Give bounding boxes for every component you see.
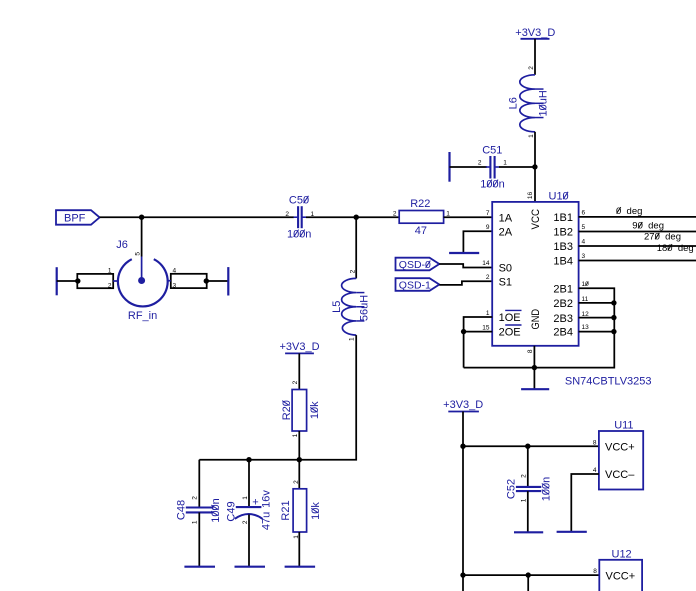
wire C49 bottom lead <box>248 515 250 567</box>
svg-text:15: 15 <box>482 324 490 331</box>
capacitor C48 <box>175 496 222 524</box>
svg-text:10k: 10k <box>310 502 322 520</box>
svg-text:180 deg: 180 deg <box>657 243 694 254</box>
ground (R21) <box>285 566 316 568</box>
svg-text:RF_in: RF_in <box>128 310 157 322</box>
svg-text:56uH: 56uH <box>358 295 370 321</box>
wire junction down to J6 <box>141 217 143 256</box>
ground (J6 left) <box>56 267 58 295</box>
svg-text:1: 1 <box>528 134 535 138</box>
U10 pin 11 2B2 <box>553 296 588 310</box>
svg-text:2B3: 2B3 <box>553 313 573 325</box>
svg-text:7: 7 <box>486 210 490 217</box>
connector J6 <box>116 239 167 322</box>
svg-text:100n: 100n <box>480 178 504 190</box>
svg-text:100n: 100n <box>541 477 553 501</box>
svg-text:1: 1 <box>486 310 490 317</box>
U10 pin 8 GND <box>527 309 542 353</box>
wire 2A to ground <box>463 231 492 253</box>
svg-text:2: 2 <box>478 160 482 167</box>
IC U11 <box>599 420 643 490</box>
wire gnd to J6 pad left <box>57 280 78 282</box>
svg-text:1: 1 <box>108 268 112 275</box>
wire QSD-0 to S0 <box>439 264 492 268</box>
node 2B3 <box>611 315 616 320</box>
svg-text:R22: R22 <box>410 198 430 210</box>
wire C51 to junction <box>499 166 535 168</box>
inductor L6 <box>508 66 550 138</box>
svg-text:2: 2 <box>528 66 535 70</box>
wire to U11 pin 8 <box>463 445 599 447</box>
node J6 pad right <box>204 278 209 283</box>
svg-text:GND: GND <box>530 309 542 330</box>
svg-text:4: 4 <box>593 467 597 474</box>
wire U11 VCC- to gnd <box>571 474 599 532</box>
svg-text:BPF: BPF <box>64 213 86 225</box>
svg-text:14: 14 <box>482 260 490 267</box>
svg-text:2: 2 <box>108 283 112 290</box>
wire U10 GND pin down <box>533 346 535 389</box>
wire L5 down and left <box>199 335 356 460</box>
capacitor C52 <box>505 474 552 502</box>
svg-text:5: 5 <box>582 224 586 231</box>
U10 pin 9 2A <box>486 224 513 238</box>
svg-text:10k: 10k <box>309 401 321 419</box>
svg-text:VCC: VCC <box>530 209 542 230</box>
node U12 row left <box>460 572 465 577</box>
U10 pin 12 2B3 <box>553 311 589 325</box>
wire R22 to U10 1A <box>444 216 493 218</box>
U11 pin 8 VCC+ <box>593 439 635 453</box>
wire 1B1 out 0 deg <box>579 216 696 218</box>
U10 pin 2 S1 <box>486 274 512 288</box>
svg-text:16: 16 <box>527 192 534 200</box>
svg-text:U11: U11 <box>614 420 633 432</box>
svg-text:+3V3_D: +3V3_D <box>279 341 319 353</box>
svg-text:8: 8 <box>593 568 597 575</box>
svg-text:2: 2 <box>520 474 527 478</box>
node U11 row left <box>460 444 465 449</box>
svg-text:1A: 1A <box>499 212 513 224</box>
svg-text:QSD-0: QSD-0 <box>399 259 431 271</box>
svg-text:8: 8 <box>593 439 597 446</box>
ground (C52) <box>514 531 543 533</box>
svg-text:C51: C51 <box>482 145 502 157</box>
svg-text:1: 1 <box>292 433 299 437</box>
resistor R22 <box>393 198 450 237</box>
wire 2B3 <box>579 317 615 319</box>
svg-text:L6: L6 <box>508 97 520 109</box>
svg-text:C48: C48 <box>175 500 187 520</box>
U10 pin 5 1B2 <box>553 224 585 239</box>
ground (U11) <box>557 531 587 533</box>
svg-text:S1: S1 <box>499 277 512 289</box>
wire 1B4 out 180 deg <box>579 260 696 262</box>
node 2B2 <box>611 300 616 305</box>
net flag QSD-1 <box>396 278 440 291</box>
svg-text:13: 13 <box>582 324 590 331</box>
svg-text:1OE: 1OE <box>499 312 521 324</box>
wire C50 to R22 <box>306 216 399 218</box>
U12 pin 8 VCC+ <box>593 568 635 582</box>
resistor R20 <box>281 380 321 437</box>
svg-text:90 deg: 90 deg <box>632 221 664 232</box>
svg-text:10uH: 10uH <box>538 90 550 116</box>
svg-text:100n: 100n <box>287 228 311 240</box>
svg-text:C52: C52 <box>505 479 517 499</box>
svg-text:2: 2 <box>242 520 249 524</box>
capacitor C49 polarized <box>225 490 272 531</box>
node 1OE/2OE junction <box>461 329 466 334</box>
U10 pin 1 1OE <box>486 310 522 324</box>
wire C48 bottom lead <box>198 512 200 566</box>
svg-text:6: 6 <box>582 209 586 216</box>
node BPF/J6 junction <box>139 215 144 220</box>
J6 right pad pins 4,3 <box>167 268 207 290</box>
wire R21 to gnd <box>298 532 300 567</box>
svg-text:2B1: 2B1 <box>553 283 573 295</box>
svg-text:VCC+: VCC+ <box>605 441 635 453</box>
node C52 top <box>525 444 530 449</box>
node R20/R21 junction <box>297 457 302 462</box>
wire GND junction right and up to 2B1 <box>534 288 614 367</box>
U10 pin 16 VCC <box>527 192 542 230</box>
wire 1B3 out 270 deg <box>579 245 696 247</box>
node C49 junction <box>246 457 251 462</box>
node U12 cap junction <box>526 572 531 577</box>
wire C48 top lead <box>198 460 200 508</box>
svg-text:J6: J6 <box>116 239 128 251</box>
svg-text:9: 9 <box>486 224 490 231</box>
wire below U12 junction <box>527 575 529 591</box>
capacitor C51 <box>478 145 507 191</box>
svg-text:47u: 47u <box>260 512 272 530</box>
svg-text:2A: 2A <box>499 226 513 238</box>
net flag QSD-0 <box>396 258 440 271</box>
U10 pin 3 1B4 <box>553 253 585 268</box>
U10 pin 10 2B1 <box>553 281 589 295</box>
svg-text:8: 8 <box>527 349 534 353</box>
svg-text:+3V3_D: +3V3_D <box>515 27 555 39</box>
U10 pin 4 1B3 <box>553 239 585 254</box>
U11 pin 4 VCC- <box>593 467 635 481</box>
svg-text:2: 2 <box>285 211 289 218</box>
svg-text:100n: 100n <box>210 498 222 522</box>
svg-text:1: 1 <box>242 496 249 500</box>
U10 pin 13 2B4 <box>553 324 589 338</box>
svg-text:QSD-1: QSD-1 <box>399 280 431 292</box>
svg-text:1B2: 1B2 <box>553 227 573 239</box>
ground (left of C51) <box>448 152 450 182</box>
svg-text:1B1: 1B1 <box>553 212 573 224</box>
wire C52 top lead <box>527 446 529 487</box>
node 2B4 <box>611 329 616 334</box>
svg-text:SN74CBTLV3253: SN74CBTLV3253 <box>565 375 652 387</box>
svg-text:2: 2 <box>393 210 397 217</box>
ground (U10) <box>521 388 549 390</box>
U10 pin 7 1A <box>486 210 513 225</box>
svg-text:3: 3 <box>173 283 177 290</box>
wire power to R20 <box>298 353 300 389</box>
svg-text:2B2: 2B2 <box>553 298 573 310</box>
node L5 junction <box>354 215 359 220</box>
svg-text:2: 2 <box>292 380 299 384</box>
U10 pin 15 2OE <box>482 324 521 338</box>
svg-text:1B3: 1B3 <box>553 241 573 253</box>
ground (2A) <box>449 252 479 254</box>
wire QSD-1 to S1 <box>439 281 492 285</box>
net flag BPF <box>56 210 100 225</box>
svg-text:4: 4 <box>173 268 177 275</box>
wire gnd to C51 <box>450 166 488 168</box>
svg-text:2: 2 <box>349 269 356 273</box>
wire BPF to C50 <box>100 216 294 218</box>
svg-text:1: 1 <box>348 337 355 341</box>
node GND junction <box>532 365 537 370</box>
capacitor C50 <box>285 195 314 241</box>
svg-text:1: 1 <box>520 498 527 502</box>
svg-text:S0: S0 <box>499 263 512 275</box>
svg-text:2B4: 2B4 <box>553 326 573 338</box>
wire 2B4 <box>579 331 615 333</box>
power +3V3_D (R20) <box>279 341 319 353</box>
svg-text:2OE: 2OE <box>499 327 521 339</box>
node L6/C51 junction <box>532 164 537 169</box>
wire 2B2 <box>579 302 615 304</box>
svg-text:1B4: 1B4 <box>553 256 573 268</box>
wire power to L6 <box>534 39 536 75</box>
svg-text:C49: C49 <box>225 501 237 521</box>
svg-text:+3V3_D: +3V3_D <box>443 399 483 411</box>
wire OE net to GND junction <box>464 367 535 369</box>
svg-text:4: 4 <box>582 239 586 246</box>
ground (C48) <box>184 566 215 568</box>
wire 1B2 out 90 deg <box>579 231 696 233</box>
wire R20 to junction <box>298 431 300 460</box>
svg-text:0 deg: 0 deg <box>616 206 642 217</box>
wire power down to U12 row <box>462 412 464 591</box>
svg-text:U12: U12 <box>612 548 632 560</box>
inductor L5 <box>331 269 370 341</box>
svg-text:R21: R21 <box>280 500 292 520</box>
svg-text:270 deg: 270 deg <box>644 232 681 243</box>
svg-text:VCC–: VCC– <box>605 469 635 481</box>
svg-text:5: 5 <box>134 252 141 256</box>
svg-text:1: 1 <box>503 159 507 166</box>
svg-text:1: 1 <box>192 520 199 524</box>
resistor R21 <box>280 480 322 539</box>
node J6 pad left <box>75 278 80 283</box>
IC U10 box <box>492 202 578 346</box>
wire junction to L5 <box>355 217 357 278</box>
wire 2OE <box>464 331 493 333</box>
svg-text:11: 11 <box>582 296 589 303</box>
power +3V3_D (bottom) <box>443 399 483 412</box>
svg-text:3: 3 <box>582 253 586 260</box>
svg-text:VCC+: VCC+ <box>606 570 636 582</box>
svg-text:R20: R20 <box>281 400 293 420</box>
wire J6 pad right to gnd <box>206 280 228 282</box>
svg-text:2: 2 <box>486 274 490 281</box>
U10 pin 6 1B1 <box>553 209 585 224</box>
power +3V3_D (top) <box>515 27 555 39</box>
wire C49 top lead <box>248 460 250 507</box>
wire 1OE to 2OE junction down to gnd row <box>464 317 493 368</box>
wire L6 to U10 VCC <box>534 132 536 202</box>
ground (J6 right) <box>227 267 229 295</box>
U10 pin 14 S0 <box>482 260 512 274</box>
wire junction to R21 <box>298 460 300 489</box>
IC U12 <box>599 548 642 591</box>
svg-text:2: 2 <box>192 496 199 500</box>
svg-text:U10: U10 <box>549 191 569 203</box>
svg-text:47: 47 <box>415 225 427 237</box>
wire C52 bottom lead <box>527 491 529 532</box>
J6 left pad pins 1,2 <box>77 268 117 290</box>
svg-text:16v: 16v <box>260 490 272 508</box>
svg-text:+: + <box>252 497 258 509</box>
svg-text:L5: L5 <box>331 301 343 313</box>
svg-text:2: 2 <box>293 480 300 484</box>
wire to U12 pin 8 <box>463 574 599 576</box>
ground (C49) <box>235 566 266 568</box>
svg-text:C50: C50 <box>289 195 309 207</box>
